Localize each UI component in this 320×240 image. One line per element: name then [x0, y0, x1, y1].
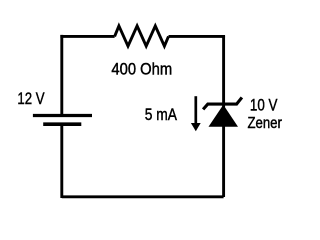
wire right (through zener) [222, 36, 225, 197]
zener diode D1 anode triangle [209, 105, 239, 127]
svg-text:12 V: 12 V [17, 89, 45, 108]
svg-text:10 V: 10 V [250, 96, 278, 115]
battery V1 negative plate [43, 122, 81, 126]
svg-text:5 mA: 5 mA [145, 105, 178, 124]
zener diode D1 cathode bar with bent ends [203, 97, 242, 109]
wire left upper (to battery +) [60, 35, 63, 116]
resistor R1 [115, 26, 169, 46]
wire left lower (from battery -) [60, 124, 63, 198]
wire top-right segment [169, 36, 224, 37]
current arrow 5 mA head [191, 123, 201, 131]
wire bottom [62, 195, 224, 198]
svg-text:400 Ohm: 400 Ohm [111, 60, 172, 79]
current arrow 5 mA shaft [194, 96, 197, 124]
svg-text:Zener: Zener [248, 115, 282, 132]
battery V1 positive plate [33, 114, 92, 117]
wire top-left segment [62, 35, 115, 37]
